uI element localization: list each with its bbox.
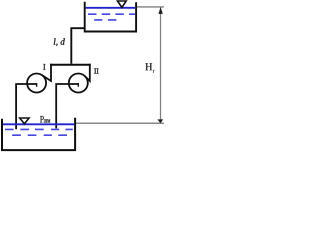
label P atm [40, 116, 44, 122]
arrow down [157, 119, 163, 123]
pump I circle [27, 74, 46, 93]
datum line (lower water level) [76, 122, 164, 124]
top reference line [137, 6, 164, 8]
upper water dashes row 1 [88, 13, 135, 15]
lower level mark (nabla) [20, 118, 29, 124]
pump II suction line [56, 84, 78, 128]
pump II circle [69, 74, 88, 93]
label II [94, 68, 98, 73]
dimension line Hg [160, 7, 162, 123]
lower water dashes row 2 [12, 134, 67, 136]
pump II center tick [77, 83, 79, 87]
supply pipe l,d [71, 28, 84, 64]
upper water surface [86, 7, 136, 9]
lower tank walls [2, 118, 75, 150]
lower water surface [3, 123, 74, 125]
upper tank walls [84, 2, 137, 32]
pump I center tick [36, 83, 38, 87]
label I [43, 64, 45, 70]
discharge bridge [50, 64, 91, 66]
pump I suction line [16, 84, 36, 129]
pump II discharge tangent and drop [85, 64, 90, 81]
upper water dashes row 2 [94, 19, 116, 21]
upper level mark (nabla) [118, 1, 127, 7]
arrow up [158, 7, 162, 14]
pump I discharge tangent and drop [42, 64, 51, 81]
label l, d [54, 38, 65, 46]
lower water dashes row 1 [5, 128, 73, 130]
label Hg [145, 63, 152, 70]
